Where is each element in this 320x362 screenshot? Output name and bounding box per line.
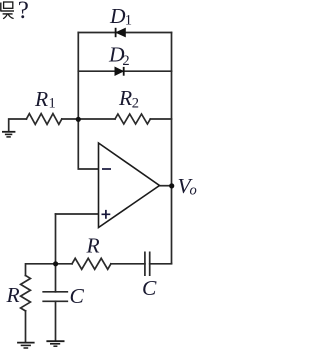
wire D2 branch (78, 70, 171, 72)
wire capacitor to right rail (150, 263, 172, 265)
wire left rail down to inverting input (78, 33, 98, 170)
diode D1 (116, 28, 126, 37)
svg-text:2: 2 (122, 53, 129, 69)
text fragment cut Chinese char (0, 2, 14, 19)
node bottom junction (53, 261, 58, 266)
ground bottom middle (46, 341, 64, 346)
wire R1 to junction to R2 (62, 118, 115, 120)
svg-text:R: R (34, 87, 48, 111)
svg-text:2: 2 (132, 95, 139, 111)
wire bottom node to resistor R (56, 263, 73, 265)
ground bottom left (17, 343, 34, 348)
wire capacitor to ground (55, 301, 57, 341)
svg-text:C: C (70, 284, 85, 308)
resistor R1 (26, 114, 61, 125)
wire right rail (171, 33, 173, 264)
wire node to capacitor C vertical (55, 264, 57, 292)
wire bottom node to left elbow (26, 264, 56, 276)
node Vo (169, 183, 174, 188)
svg-text:o: o (190, 183, 197, 199)
resistor R bottom (72, 258, 111, 269)
capacitor C vertical plates (43, 292, 67, 302)
resistor R vertical left (21, 276, 31, 311)
svg-text:R: R (86, 234, 100, 258)
svg-text:C: C (142, 276, 157, 300)
capacitor C horizontal plates (145, 252, 150, 275)
wire R to ground (25, 311, 27, 342)
wire R2 to right rail (150, 118, 171, 120)
wire R1 ground elbow (9, 119, 27, 132)
svg-text:D: D (109, 4, 126, 28)
resistor R2 (115, 114, 150, 124)
svg-text:1: 1 (125, 12, 132, 28)
diode D2 (115, 67, 124, 76)
wire D1 branch top (78, 32, 171, 34)
op-amp U1 (99, 143, 160, 228)
op-amp output wire (160, 185, 172, 187)
wire R to capacitor C (111, 263, 145, 265)
node junction R1-R2 (76, 117, 81, 122)
svg-text:R: R (118, 86, 132, 110)
svg-text:1: 1 (49, 95, 56, 111)
ground for R1 (2, 132, 15, 137)
wire plus input down to bottom node (55, 214, 57, 264)
svg-text:?: ? (18, 0, 29, 24)
svg-text:R: R (6, 283, 20, 307)
wire noninverting input (56, 213, 99, 215)
